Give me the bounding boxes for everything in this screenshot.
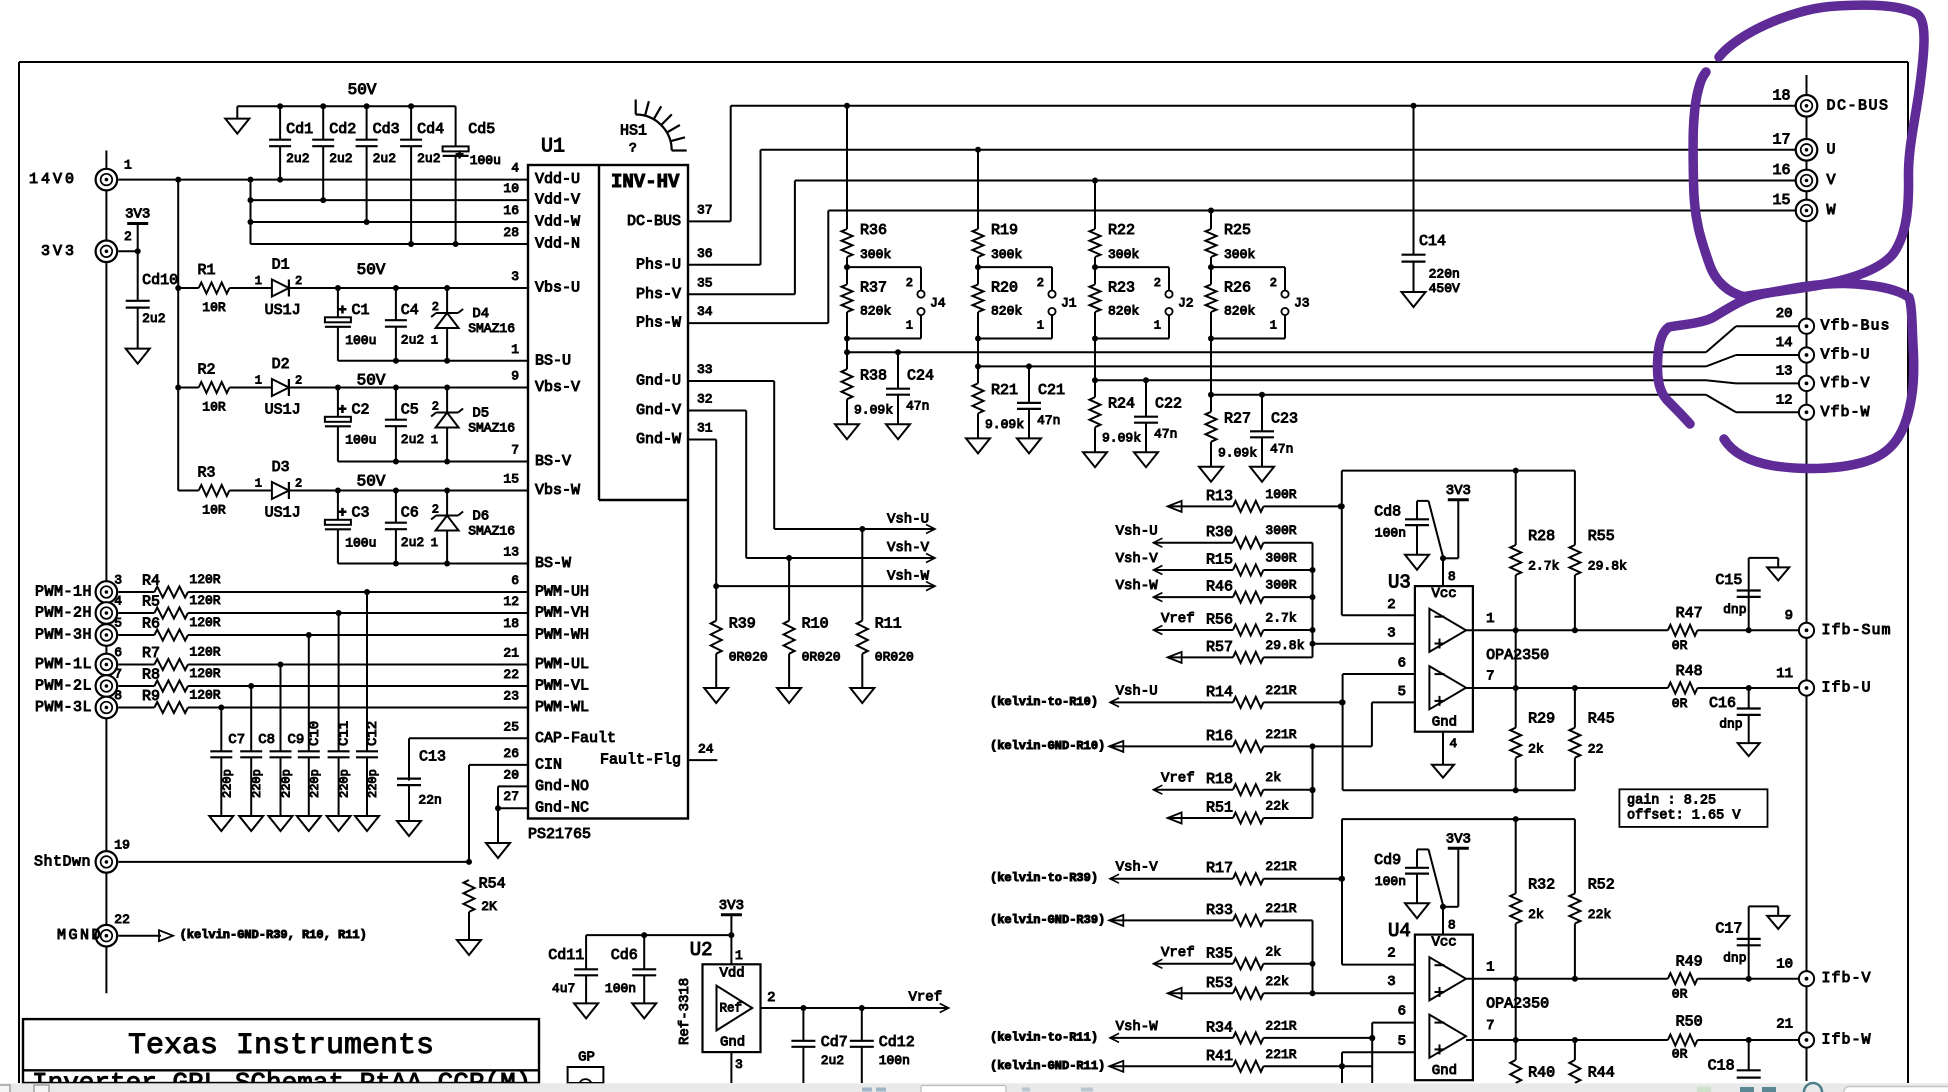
svg-text:Cd10: Cd10	[142, 272, 178, 289]
svg-text:22k: 22k	[1265, 974, 1289, 989]
svg-text:C7: C7	[228, 732, 245, 748]
svg-text:C6: C6	[401, 505, 419, 522]
svg-text:Cd11: Cd11	[548, 947, 584, 964]
svg-text:1: 1	[511, 342, 519, 357]
svg-text:120R: 120R	[189, 615, 220, 630]
svg-text:2u2: 2u2	[286, 151, 309, 166]
svg-text:dnp: dnp	[1723, 602, 1746, 617]
svg-text:20: 20	[1776, 306, 1793, 322]
svg-text:C15: C15	[1715, 572, 1742, 589]
svg-text:Phs-V: Phs-V	[636, 286, 681, 303]
svg-text:26: 26	[503, 746, 519, 761]
svg-text:R13: R13	[1206, 488, 1233, 505]
svg-text:US1J: US1J	[265, 402, 301, 419]
svg-text:R52: R52	[1588, 876, 1615, 893]
svg-text:R24: R24	[1108, 396, 1135, 413]
svg-text:0R020: 0R020	[802, 650, 841, 665]
svg-text:300k: 300k	[991, 247, 1022, 262]
svg-text:BS-W: BS-W	[535, 555, 571, 572]
svg-text:C10: C10	[307, 721, 323, 746]
svg-text:CIN: CIN	[535, 756, 562, 773]
svg-text:J2: J2	[1178, 295, 1194, 310]
svg-text:Vsh-W: Vsh-W	[887, 568, 930, 584]
svg-text:Gnd: Gnd	[1432, 715, 1457, 731]
svg-text:9: 9	[1785, 608, 1793, 624]
svg-text:14: 14	[1776, 335, 1793, 351]
svg-text:U4: U4	[1388, 920, 1411, 942]
svg-text:R9: R9	[142, 688, 160, 705]
svg-text:2k: 2k	[1528, 741, 1544, 756]
svg-text:Gnd-U: Gnd-U	[636, 373, 681, 390]
svg-text:221R: 221R	[1265, 901, 1296, 916]
svg-text:300R: 300R	[1265, 523, 1296, 538]
svg-text:R50: R50	[1676, 1014, 1703, 1031]
svg-text:47n: 47n	[1154, 427, 1177, 442]
svg-text:300k: 300k	[1108, 247, 1139, 262]
svg-text:300R: 300R	[1265, 578, 1296, 593]
svg-text:(kelvin-to-R39): (kelvin-to-R39)	[990, 871, 1098, 885]
svg-text:300R: 300R	[1265, 551, 1296, 566]
svg-text:Cd1: Cd1	[286, 121, 313, 138]
svg-text:U1: U1	[541, 136, 565, 159]
svg-text:PWM-1H: PWM-1H	[35, 584, 92, 601]
svg-text:1: 1	[906, 319, 913, 333]
svg-text:1: 1	[431, 536, 438, 550]
svg-text:C14: C14	[1419, 233, 1446, 250]
svg-text:dnp: dnp	[1719, 716, 1742, 731]
svg-text:450V: 450V	[1429, 281, 1460, 296]
svg-text:R22: R22	[1108, 222, 1135, 239]
svg-text:221R: 221R	[1265, 683, 1296, 698]
svg-text:820k: 820k	[991, 304, 1022, 319]
svg-text:820k: 820k	[1224, 304, 1255, 319]
svg-text:Ifb-U: Ifb-U	[1822, 680, 1872, 697]
svg-text:8: 8	[114, 688, 122, 703]
svg-text:C12: C12	[365, 721, 381, 746]
svg-text:2: 2	[432, 400, 439, 414]
svg-text:Vsh-U: Vsh-U	[1116, 683, 1158, 699]
svg-text:100n: 100n	[879, 1053, 910, 1068]
svg-text:C9: C9	[288, 732, 305, 748]
svg-text:47n: 47n	[1270, 441, 1293, 456]
svg-text:R20: R20	[991, 280, 1018, 297]
svg-text:2u2: 2u2	[821, 1053, 844, 1068]
svg-text:28: 28	[503, 225, 519, 240]
svg-text:120R: 120R	[189, 645, 220, 660]
svg-text:Ref: Ref	[720, 1002, 743, 1016]
svg-text:C11: C11	[337, 721, 353, 746]
svg-text:50V: 50V	[348, 81, 377, 99]
svg-text:R5: R5	[142, 594, 160, 611]
svg-text:31: 31	[697, 421, 713, 436]
svg-text:17: 17	[1772, 131, 1790, 148]
svg-text:29.8k: 29.8k	[1588, 559, 1627, 574]
svg-text:(kelvin-GND-R10): (kelvin-GND-R10)	[990, 739, 1105, 753]
svg-text:R45: R45	[1588, 711, 1615, 728]
svg-text:C22: C22	[1155, 396, 1182, 413]
svg-text:(kelvin-GND-R39): (kelvin-GND-R39)	[990, 913, 1105, 927]
svg-text:R25: R25	[1224, 222, 1251, 239]
svg-text:18: 18	[1772, 87, 1790, 104]
svg-text:2: 2	[1387, 946, 1395, 962]
svg-text:10: 10	[503, 181, 519, 196]
svg-text:Vdd: Vdd	[720, 966, 745, 982]
svg-text:PWM-UH: PWM-UH	[535, 584, 589, 601]
svg-text:21: 21	[503, 646, 519, 661]
svg-text:10R: 10R	[202, 503, 226, 518]
svg-text:220p: 220p	[220, 769, 234, 798]
svg-text:SMAZ16: SMAZ16	[468, 524, 515, 539]
svg-text:Phs-U: Phs-U	[636, 256, 681, 273]
svg-text:R17: R17	[1206, 860, 1233, 877]
svg-text:100u: 100u	[345, 333, 376, 348]
svg-text:2u2: 2u2	[401, 332, 424, 347]
svg-text:gain : 8.25: gain : 8.25	[1627, 794, 1716, 809]
svg-text:50V: 50V	[357, 372, 386, 390]
svg-text:2u2: 2u2	[329, 151, 352, 166]
svg-text:R16: R16	[1206, 728, 1233, 745]
svg-text:10R: 10R	[202, 300, 226, 315]
svg-text:R33: R33	[1206, 902, 1233, 919]
svg-text:2u2: 2u2	[142, 311, 165, 326]
svg-text:?: ?	[629, 141, 637, 156]
svg-text:R4: R4	[142, 573, 160, 590]
svg-text:R39: R39	[729, 616, 756, 633]
svg-text:2.7k: 2.7k	[1528, 559, 1559, 574]
svg-text:R51: R51	[1206, 800, 1233, 817]
svg-text:14V0: 14V0	[29, 171, 77, 188]
svg-text:3V3: 3V3	[1446, 831, 1471, 847]
svg-text:D6: D6	[472, 509, 489, 525]
svg-text:9.09k: 9.09k	[1102, 431, 1141, 446]
svg-text:1: 1	[431, 334, 438, 348]
svg-text:Cd8: Cd8	[1374, 504, 1401, 521]
svg-text:Vfb-V: Vfb-V	[1821, 375, 1871, 392]
svg-text:C24: C24	[907, 368, 934, 385]
svg-text:C8: C8	[258, 732, 275, 748]
svg-text:Gnd-NC: Gnd-NC	[535, 800, 589, 817]
svg-text:PS21765: PS21765	[528, 826, 591, 843]
svg-text:MGND: MGND	[57, 927, 103, 944]
svg-text:2k: 2k	[1265, 944, 1281, 959]
svg-text:R41: R41	[1206, 1048, 1233, 1065]
svg-text:0R: 0R	[1672, 986, 1688, 1001]
svg-text:R10: R10	[802, 616, 829, 633]
svg-text:offset: 1.65 V: offset: 1.65 V	[1627, 809, 1741, 824]
svg-text:3V3: 3V3	[41, 243, 77, 260]
svg-text:4: 4	[511, 161, 519, 176]
svg-text:820k: 820k	[860, 304, 891, 319]
svg-text:0R: 0R	[1672, 1047, 1688, 1062]
svg-text:20: 20	[503, 767, 519, 782]
svg-text:22: 22	[1588, 741, 1604, 756]
svg-text:2u2: 2u2	[373, 151, 396, 166]
svg-text:GP: GP	[578, 1049, 595, 1065]
svg-text:100R: 100R	[1265, 487, 1296, 502]
svg-text:W: W	[1827, 202, 1838, 219]
svg-text:R1: R1	[197, 262, 215, 279]
svg-text:15: 15	[1772, 192, 1790, 209]
svg-text:Vsh-U: Vsh-U	[1116, 524, 1158, 540]
svg-text:R3: R3	[197, 465, 215, 482]
svg-text:2: 2	[767, 990, 775, 1006]
svg-text:1: 1	[124, 158, 132, 173]
svg-text:3: 3	[1387, 974, 1395, 990]
svg-text:10: 10	[1776, 956, 1793, 972]
svg-text:Vfb-Bus: Vfb-Bus	[1821, 318, 1891, 335]
svg-text:+: +	[338, 505, 346, 521]
svg-text:1: 1	[735, 948, 743, 963]
svg-text:CAP-Fault: CAP-Fault	[535, 730, 616, 747]
svg-text:13: 13	[1776, 363, 1793, 379]
svg-text:12: 12	[1776, 392, 1793, 408]
svg-text:C18: C18	[1708, 1058, 1735, 1075]
svg-text:5: 5	[114, 616, 122, 631]
svg-text:Vcc: Vcc	[1432, 586, 1457, 602]
svg-text:18: 18	[503, 616, 519, 631]
svg-text:DC-BUS: DC-BUS	[1827, 97, 1890, 114]
svg-text:2: 2	[432, 503, 439, 517]
svg-text:C4: C4	[401, 302, 419, 319]
svg-text:C5: C5	[401, 402, 419, 419]
svg-text:Cd4: Cd4	[417, 121, 444, 138]
svg-text:D3: D3	[272, 459, 290, 476]
svg-text:120R: 120R	[189, 593, 220, 608]
svg-text:R7: R7	[142, 645, 160, 662]
svg-text:9.09k: 9.09k	[854, 403, 893, 418]
svg-text:1: 1	[1154, 319, 1161, 333]
svg-text:Vfb-U: Vfb-U	[1821, 347, 1871, 364]
svg-text:0R020: 0R020	[875, 650, 914, 665]
svg-text:US1J: US1J	[265, 505, 301, 522]
svg-text:100n: 100n	[1375, 874, 1406, 889]
svg-text:OPA2350: OPA2350	[1486, 647, 1549, 664]
svg-text:Cd9: Cd9	[1374, 852, 1401, 869]
svg-text:J4: J4	[930, 295, 946, 310]
svg-text:Cd5: Cd5	[468, 121, 495, 138]
svg-text:2u2: 2u2	[417, 151, 440, 166]
svg-text:R32: R32	[1528, 876, 1555, 893]
svg-text:100u: 100u	[470, 153, 501, 168]
svg-text:2u2: 2u2	[401, 432, 424, 447]
svg-text:U: U	[1827, 141, 1838, 158]
svg-text:Vcc: Vcc	[1432, 935, 1457, 951]
svg-text:J1: J1	[1061, 295, 1077, 310]
svg-text:3: 3	[735, 1057, 743, 1072]
svg-text:R30: R30	[1206, 524, 1233, 541]
svg-text:221R: 221R	[1265, 859, 1296, 874]
svg-text:R34: R34	[1206, 1019, 1233, 1036]
svg-text:(kelvin-GND-R39, R10, R11): (kelvin-GND-R39, R10, R11)	[180, 928, 367, 942]
svg-text:Cd3: Cd3	[373, 121, 400, 138]
svg-text:INV-HV: INV-HV	[611, 171, 680, 193]
svg-text:300k: 300k	[860, 247, 891, 262]
svg-text:SMAZ16: SMAZ16	[468, 421, 515, 436]
svg-text:R8: R8	[142, 667, 160, 684]
svg-text:4: 4	[114, 594, 122, 609]
svg-text:34: 34	[697, 304, 713, 319]
svg-text:Vref: Vref	[1161, 771, 1195, 787]
svg-text:221R: 221R	[1265, 1018, 1296, 1033]
svg-text:11: 11	[1776, 666, 1793, 682]
svg-text:120R: 120R	[189, 688, 220, 703]
svg-text:OPA2350: OPA2350	[1486, 996, 1549, 1013]
svg-text:7: 7	[114, 667, 122, 682]
svg-text:36: 36	[697, 246, 713, 261]
svg-text:Cd6: Cd6	[611, 947, 638, 964]
svg-text:R40: R40	[1528, 1064, 1555, 1081]
svg-text:Vsh-V: Vsh-V	[1116, 551, 1159, 567]
svg-text:7: 7	[1486, 1018, 1494, 1034]
svg-text:22: 22	[503, 667, 519, 682]
svg-text:C3: C3	[352, 505, 370, 522]
svg-text:Vref: Vref	[1161, 945, 1195, 961]
svg-text:PWM-3H: PWM-3H	[35, 627, 92, 644]
svg-text:15: 15	[503, 472, 519, 487]
svg-text:R57: R57	[1206, 639, 1233, 656]
svg-text:PWM-1L: PWM-1L	[35, 656, 92, 673]
svg-text:47n: 47n	[906, 399, 929, 414]
svg-text:R6: R6	[142, 616, 160, 633]
svg-text:22n: 22n	[418, 793, 441, 808]
svg-text:220n: 220n	[1429, 266, 1460, 281]
svg-text:1: 1	[255, 274, 262, 288]
svg-text:35: 35	[697, 275, 713, 290]
svg-text:U2: U2	[690, 939, 713, 961]
svg-text:2K: 2K	[481, 899, 497, 914]
svg-text:3V3: 3V3	[125, 207, 150, 223]
svg-text:16: 16	[503, 203, 519, 218]
svg-text:D4: D4	[472, 306, 489, 322]
svg-text:R53: R53	[1206, 975, 1233, 992]
svg-text:Vbs-U: Vbs-U	[535, 280, 580, 297]
svg-text:PWM-VL: PWM-VL	[535, 678, 589, 695]
svg-text:J3: J3	[1294, 295, 1310, 310]
svg-text:1: 1	[1270, 319, 1277, 333]
svg-text:8: 8	[1448, 918, 1456, 933]
svg-text:PWM-2L: PWM-2L	[35, 678, 92, 695]
svg-text:9.09k: 9.09k	[1218, 445, 1257, 460]
svg-text:6: 6	[114, 645, 122, 660]
svg-text:Vsh-U: Vsh-U	[887, 511, 929, 527]
svg-text:Fault-Flg: Fault-Flg	[600, 752, 681, 769]
svg-text:12: 12	[503, 594, 519, 609]
svg-text:R18: R18	[1206, 771, 1233, 788]
svg-text:Gnd: Gnd	[1432, 1063, 1457, 1079]
svg-text:C13: C13	[419, 749, 446, 766]
svg-text:1: 1	[1486, 611, 1494, 627]
svg-text:R21: R21	[991, 382, 1018, 399]
svg-text:R35: R35	[1206, 945, 1233, 962]
svg-text:R48: R48	[1676, 663, 1703, 680]
svg-text:6: 6	[1398, 1004, 1406, 1020]
svg-text:50V: 50V	[357, 261, 386, 279]
svg-text:4: 4	[1449, 736, 1457, 751]
svg-text:R28: R28	[1528, 528, 1555, 545]
svg-text:R55: R55	[1588, 528, 1615, 545]
svg-text:100u: 100u	[345, 536, 376, 551]
svg-text:Vdd-V: Vdd-V	[535, 192, 580, 209]
svg-text:27: 27	[503, 789, 519, 804]
svg-text:221R: 221R	[1265, 1047, 1296, 1062]
svg-text:R19: R19	[991, 222, 1018, 239]
svg-text:3V3: 3V3	[1446, 483, 1471, 499]
svg-text:8: 8	[1448, 569, 1456, 584]
svg-text:3V3: 3V3	[719, 898, 744, 914]
svg-text:R49: R49	[1676, 953, 1703, 970]
svg-text:R46: R46	[1206, 579, 1233, 596]
svg-text:1: 1	[255, 374, 262, 388]
svg-text:PWM-WH: PWM-WH	[535, 627, 589, 644]
svg-text:5: 5	[1398, 684, 1406, 700]
svg-text:13: 13	[503, 545, 519, 560]
svg-text:R11: R11	[875, 616, 902, 633]
svg-text:0R: 0R	[1672, 638, 1688, 653]
svg-text:Vdd-W: Vdd-W	[535, 214, 580, 231]
svg-text:(kelvin-GND-R11): (kelvin-GND-R11)	[990, 1059, 1105, 1073]
svg-text:HS1: HS1	[620, 123, 647, 140]
svg-text:Vdd-U: Vdd-U	[535, 171, 580, 188]
svg-text:R54: R54	[479, 876, 506, 893]
svg-text:1: 1	[255, 477, 262, 491]
svg-text:R44: R44	[1588, 1064, 1615, 1081]
svg-text:37: 37	[697, 202, 713, 217]
svg-text:2u2: 2u2	[401, 535, 424, 550]
svg-text:Vref: Vref	[1161, 611, 1195, 627]
svg-text:2: 2	[1154, 276, 1161, 290]
svg-text:Vsh-V: Vsh-V	[887, 540, 930, 556]
svg-text:19: 19	[114, 838, 130, 853]
svg-text:2.7k: 2.7k	[1265, 611, 1296, 626]
svg-text:29.8k: 29.8k	[1265, 638, 1304, 653]
svg-text:+: +	[338, 402, 346, 418]
svg-text:3: 3	[511, 269, 519, 284]
svg-text:2k: 2k	[1528, 907, 1544, 922]
svg-text:R26: R26	[1224, 280, 1251, 297]
svg-text:220p: 220p	[366, 769, 380, 798]
svg-text:C17: C17	[1715, 920, 1742, 937]
svg-text:221R: 221R	[1265, 727, 1296, 742]
svg-text:BS-U: BS-U	[535, 352, 571, 369]
svg-text:1: 1	[1486, 960, 1494, 976]
svg-text:Cd2: Cd2	[329, 121, 356, 138]
svg-text:33: 33	[697, 362, 713, 377]
svg-text:22k: 22k	[1588, 907, 1612, 922]
svg-text:C1: C1	[352, 302, 370, 319]
svg-text:100u: 100u	[345, 433, 376, 448]
svg-text:9: 9	[511, 369, 519, 384]
svg-text:V: V	[1827, 172, 1838, 189]
svg-text:220p: 220p	[280, 769, 294, 798]
svg-text:Vbs-W: Vbs-W	[535, 482, 580, 499]
svg-text:16: 16	[1772, 162, 1790, 179]
svg-text:220p: 220p	[338, 769, 352, 798]
svg-text:R15: R15	[1206, 552, 1233, 569]
svg-text:D5: D5	[472, 406, 489, 422]
svg-text:Phs-W: Phs-W	[636, 315, 681, 332]
svg-text:2: 2	[295, 477, 302, 491]
svg-text:Vbs-V: Vbs-V	[535, 379, 580, 396]
svg-text:C21: C21	[1038, 382, 1065, 399]
svg-text:Cd12: Cd12	[879, 1034, 915, 1051]
svg-text:0R020: 0R020	[729, 650, 768, 665]
svg-text:6: 6	[511, 573, 519, 588]
svg-text:Vref: Vref	[909, 990, 943, 1006]
svg-text:Vsh-W: Vsh-W	[1116, 1019, 1159, 1035]
svg-text:100n: 100n	[1375, 526, 1406, 541]
svg-text:Vfb-W: Vfb-W	[1821, 404, 1871, 421]
svg-text:1: 1	[431, 433, 438, 447]
